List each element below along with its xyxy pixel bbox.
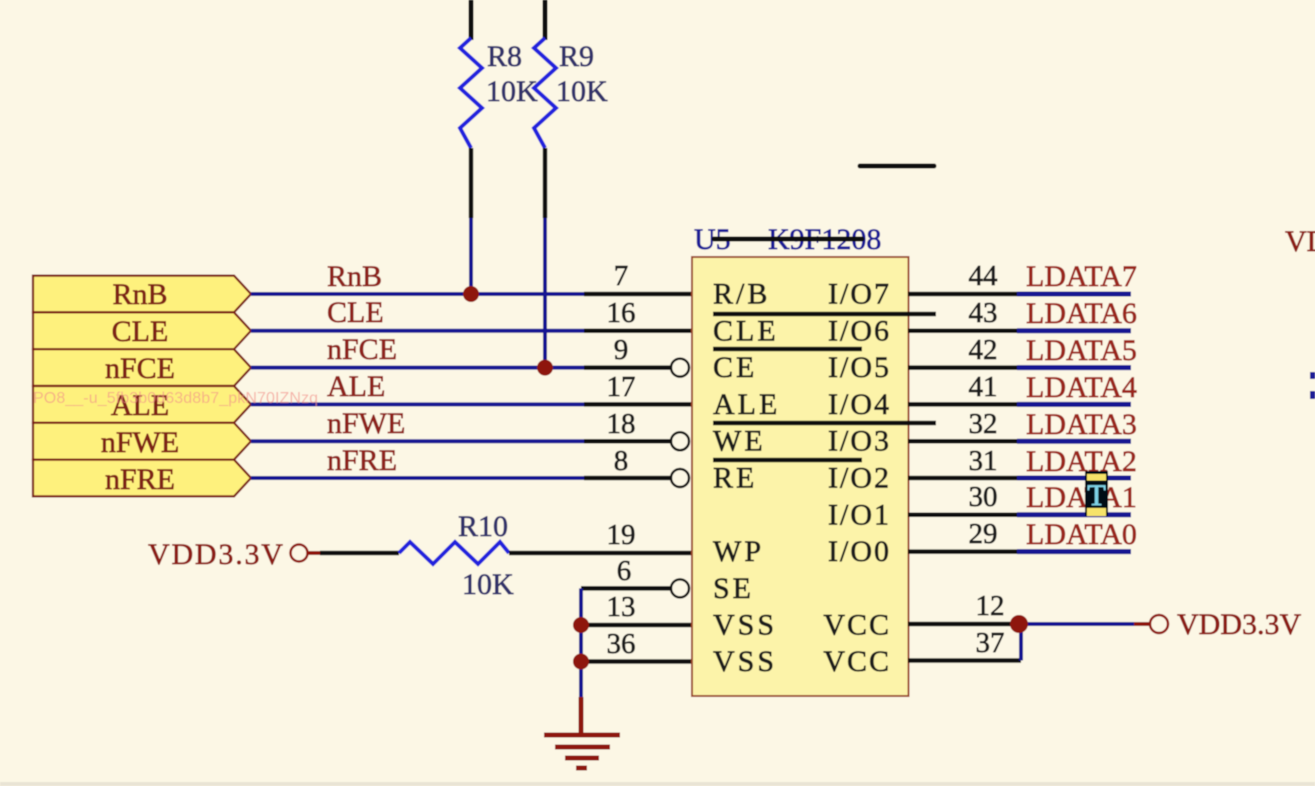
svg-text:13: 13 (607, 591, 636, 623)
svg-text:10K: 10K (556, 75, 608, 108)
svg-text:I/O3: I/O3 (828, 425, 891, 458)
resistor R9 (534, 38, 556, 369)
svg-text:42: 42 (969, 334, 998, 366)
wire VCC pin 37 (908, 658, 1021, 663)
svg-text:43: 43 (969, 297, 998, 329)
junction VSS 13 (573, 617, 589, 633)
wire strike through title (714, 237, 862, 242)
wire CLE (251, 329, 692, 333)
svg-text:nFRE: nFRE (105, 463, 175, 496)
wire top feed R8 (469, 0, 474, 40)
junction R8/RnB (463, 286, 479, 302)
svg-text:I/O4: I/O4 (828, 388, 891, 421)
overbar line B (713, 347, 862, 352)
svg-text:6: 6 (617, 555, 632, 587)
svg-text:SE: SE (713, 572, 754, 605)
pin dot RE (671, 469, 689, 487)
svg-text:CLE: CLE (112, 315, 169, 348)
svg-text:LDATA3: LDATA3 (1026, 408, 1137, 441)
svg-text:LDATA0: LDATA0 (1026, 518, 1137, 551)
wire SE stub (581, 586, 671, 591)
svg-text:RnB: RnB (327, 260, 382, 293)
port nFCE (33, 349, 251, 386)
clipped text dots right edge (1310, 372, 1315, 399)
cursor highlight box on T of LDATA1 (1085, 471, 1108, 516)
svg-text:VCC: VCC (823, 645, 891, 678)
power port VDD3.3V right (1134, 608, 1301, 641)
svg-text:R10: R10 (458, 510, 508, 543)
svg-text:RE: RE (713, 462, 757, 495)
svg-text:31: 31 (969, 445, 998, 477)
resistor R10 (399, 542, 509, 564)
svg-text:T: T (1087, 479, 1105, 512)
svg-text:LDATA5: LDATA5 (1026, 334, 1137, 367)
svg-text:I/O6: I/O6 (828, 314, 891, 347)
svg-text:36: 36 (607, 628, 636, 660)
port RnB (33, 276, 251, 313)
wire RnB (251, 292, 692, 296)
power port VDD3.3V left (148, 538, 320, 571)
svg-text:44: 44 (969, 260, 999, 292)
wire VSS pin 36 (581, 659, 692, 664)
junction R9/nFCE (537, 360, 553, 376)
svg-text:41: 41 (969, 371, 998, 403)
svg-text:I/O2: I/O2 (828, 462, 891, 495)
ground symbol (544, 697, 620, 768)
port CLE (33, 312, 251, 349)
svg-text:CE: CE (713, 351, 757, 384)
svg-text:VSS: VSS (713, 645, 777, 678)
overbar line C (713, 421, 936, 426)
svg-text:WP: WP (713, 535, 764, 568)
svg-text:19: 19 (607, 519, 636, 551)
svg-text:R9: R9 (559, 40, 594, 73)
svg-text:9: 9 (614, 334, 629, 366)
svg-text:VCC: VCC (823, 609, 891, 642)
wire LDATA7 (908, 292, 1131, 297)
svg-text:PO8__-u_5fb3b0d63d8b7_pkN70IZN: PO8__-u_5fb3b0d63d8b7_pkN70IZNzq (33, 390, 318, 407)
svg-text:LDATA7: LDATA7 (1026, 260, 1137, 293)
wire nFRE (251, 476, 671, 480)
chip U5 body (692, 257, 909, 696)
svg-text:I/O5: I/O5 (828, 351, 891, 384)
pin dot WE (671, 432, 689, 450)
wire ground vertical (579, 588, 583, 698)
svg-text:10K: 10K (462, 568, 514, 601)
svg-text:VDD3.3V: VDD3.3V (148, 538, 285, 571)
svg-text:LDATA1: LDATA1 (1026, 481, 1137, 514)
wire LDATA1 (908, 513, 1131, 518)
svg-text:LDATA4: LDATA4 (1026, 371, 1137, 404)
svg-text:37: 37 (976, 627, 1005, 659)
wire LDATA0 (908, 549, 1131, 554)
overbar line A (713, 312, 936, 317)
svg-text:CLE: CLE (713, 314, 779, 347)
overbar line D (713, 458, 862, 463)
svg-text:VDD3.3V: VDD3.3V (1285, 225, 1315, 258)
svg-text:VDD3.3V: VDD3.3V (1177, 608, 1301, 641)
svg-text:RnB: RnB (112, 278, 167, 311)
junction VSS 36 (573, 654, 589, 670)
svg-text:I/O1: I/O1 (828, 498, 891, 531)
svg-text:29: 29 (969, 518, 998, 550)
wire nFCE (251, 366, 671, 370)
svg-text:18: 18 (607, 408, 636, 440)
wire LDATA2 (908, 476, 1131, 481)
svg-text:I/O7: I/O7 (828, 278, 891, 311)
svg-text:nFCE: nFCE (105, 352, 175, 385)
bottom edge shadow (0, 782, 1315, 786)
svg-text:R/B: R/B (713, 278, 770, 311)
port nFWE (33, 423, 251, 460)
svg-text:12: 12 (976, 590, 1005, 622)
wire VSS pin 13 (581, 623, 692, 628)
svg-text:17: 17 (607, 371, 636, 403)
svg-text:LDATA2: LDATA2 (1026, 445, 1137, 478)
wire LDATA6 (908, 329, 1131, 334)
wire LDATA4 (908, 402, 1131, 407)
svg-text:LDATA6: LDATA6 (1026, 297, 1137, 330)
wire nFWE (251, 439, 671, 443)
svg-text:VSS: VSS (713, 609, 777, 642)
port nFRE (33, 460, 251, 497)
pin dot SE (671, 579, 689, 597)
svg-text:CLE: CLE (327, 296, 384, 329)
wire LDATA3 (908, 439, 1131, 444)
wire VCC pin 12 (908, 622, 1019, 627)
svg-text:R8: R8 (487, 40, 522, 73)
svg-text:ALE: ALE (713, 388, 780, 421)
svg-text:nFCE: nFCE (327, 333, 397, 366)
wire VCC riser (1019, 624, 1023, 661)
svg-text:32: 32 (969, 408, 998, 440)
svg-text:nFRE: nFRE (327, 444, 397, 477)
wire VCC to VDD (1019, 622, 1134, 626)
svg-text:ALE: ALE (327, 370, 385, 403)
wire R10 to WP (509, 551, 692, 556)
wire LDATA5 (908, 365, 1131, 370)
svg-text:7: 7 (614, 260, 629, 292)
svg-text:nFWE: nFWE (101, 426, 179, 459)
svg-text:I/O0: I/O0 (828, 535, 891, 568)
svg-text:10K: 10K (486, 75, 538, 108)
wire stub top right (860, 164, 934, 169)
svg-text:8: 8 (614, 445, 629, 477)
wire top feed R9 (543, 0, 548, 40)
svg-text:16: 16 (607, 297, 636, 329)
wire VDD to R10 (320, 551, 399, 556)
resistor R8 (460, 38, 482, 296)
wire ALE (251, 402, 692, 406)
junction VCC (1010, 615, 1028, 633)
svg-text:WE: WE (713, 425, 766, 458)
svg-text:30: 30 (969, 481, 998, 513)
pin dot CE (671, 359, 689, 377)
svg-text:nFWE: nFWE (327, 407, 405, 440)
port ALE (33, 386, 251, 423)
